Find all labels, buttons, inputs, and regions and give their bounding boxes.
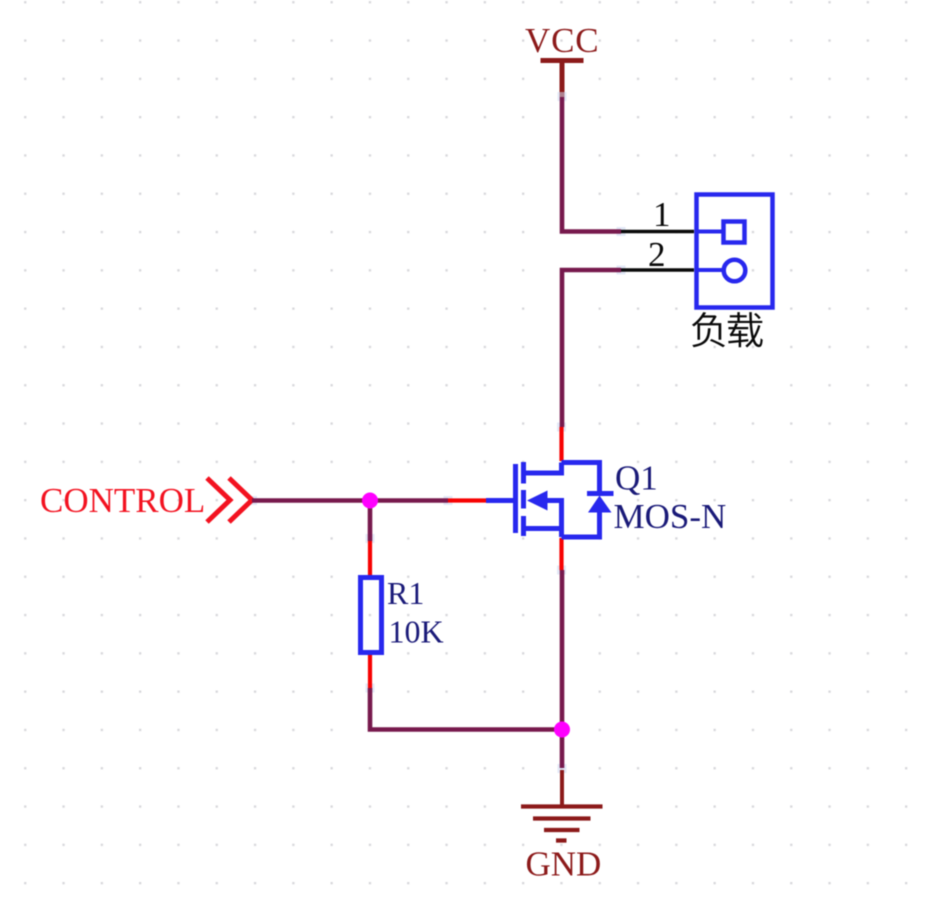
pin-end marker at Q1 gate <box>444 496 453 505</box>
Q1 channel segments <box>521 462 526 536</box>
pin 2 lead <box>621 268 694 272</box>
pin-end marker at connector pin 1 <box>617 227 626 236</box>
transistor Q1 <box>448 427 614 570</box>
svg-text:1: 1 <box>653 195 671 234</box>
junction node B <box>554 722 570 738</box>
svg-text:R1: R1 <box>387 575 424 611</box>
pin 1 lead <box>621 230 694 234</box>
wire junction to R1 <box>368 501 373 542</box>
pin 2 circle pad <box>724 260 746 282</box>
pin-end marker at net label CONTROL <box>248 496 257 505</box>
svg-text:10K: 10K <box>389 614 444 650</box>
pin-end marker at GND <box>558 764 567 773</box>
Q1 body diode branch <box>562 463 600 538</box>
wire VCC to connector pin 1 <box>562 97 621 232</box>
svg-text:2: 2 <box>648 235 666 274</box>
Q1 source pin <box>559 538 563 570</box>
R1 body <box>361 578 382 653</box>
wire connector pin 2 to Q1 drain <box>562 270 621 427</box>
pin-end marker at R1 bottom <box>366 684 375 693</box>
net label CONTROL <box>40 478 252 522</box>
pin-end marker at Q1 drain <box>557 423 566 432</box>
connector body <box>697 195 773 308</box>
Q1 gate bar <box>513 464 518 533</box>
pin-end marker at Q1 source <box>557 566 566 575</box>
pin-end marker at connector pin 2 <box>617 266 626 275</box>
Q1 drain connection <box>526 463 562 474</box>
svg-text:MOS-N: MOS-N <box>614 497 727 536</box>
svg-text:Q1: Q1 <box>615 459 658 498</box>
wire R1 to ground rail <box>370 688 562 730</box>
connector name 载 <box>728 312 763 347</box>
svg-text:GND: GND <box>526 845 602 884</box>
power symbol VCC <box>525 21 599 97</box>
Q1 diode triangle <box>588 496 612 513</box>
ground symbol GND <box>521 770 603 884</box>
Q1 gate lead <box>486 498 515 503</box>
pin-end marker at VCC stem <box>558 92 567 101</box>
connector J1 (load) <box>621 195 773 348</box>
wire Q1 source to ground <box>560 570 565 768</box>
svg-text:CONTROL: CONTROL <box>40 481 205 520</box>
Q1 source connection <box>526 501 562 538</box>
wire CONTROL to Q1 gate <box>252 498 448 503</box>
Q1 gate pin <box>448 498 486 502</box>
pin-end marker at R1 top <box>366 534 375 543</box>
resistor R1 <box>361 541 382 688</box>
R1 top pin <box>368 541 372 577</box>
Q1 body arrow <box>527 491 548 511</box>
connector name 负 <box>692 312 725 347</box>
Q1 diode cathode bar <box>587 491 614 496</box>
junction node A <box>362 493 378 509</box>
pin 1 square pad <box>724 222 745 243</box>
R1 bottom pin <box>368 653 372 688</box>
Q1 drain pin <box>559 427 563 461</box>
svg-text:VCC: VCC <box>525 21 599 60</box>
